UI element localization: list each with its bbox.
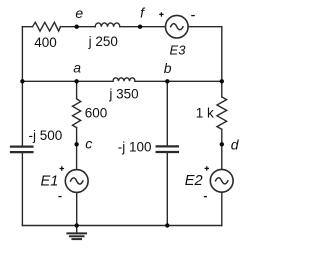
resistor 400 xyxy=(33,22,61,31)
wire capacitor -j100 to bottom wire xyxy=(166,153,168,225)
capacitor -j100 top plate xyxy=(157,145,178,147)
wire right rail upper (corner to resistor 1k) xyxy=(221,27,223,97)
E3 sine symbol xyxy=(171,24,183,30)
AC source E2 circle xyxy=(210,169,233,192)
svg-text:1 k: 1 k xyxy=(196,105,214,120)
svg-text:b: b xyxy=(164,60,172,76)
node e junction dot xyxy=(75,25,79,29)
E1 plus sign xyxy=(60,166,64,170)
resistor 1k xyxy=(217,97,227,129)
ground bar 3 xyxy=(72,238,81,240)
svg-text:-j 500: -j 500 xyxy=(29,128,63,143)
ground bar 1 xyxy=(67,232,86,234)
wire E2 to bottom-right corner xyxy=(221,192,223,225)
wire resistor 1k to source E2 (through node d) xyxy=(221,129,223,169)
svg-text:j 250: j 250 xyxy=(88,34,118,49)
resistor 600 xyxy=(73,99,81,128)
ground stub xyxy=(76,226,78,234)
wire node b to capacitor -j100 xyxy=(166,81,168,145)
junction dot left rail row2 xyxy=(20,79,24,83)
E3 minus sign xyxy=(191,15,195,17)
E1 minus sign xyxy=(58,196,61,198)
svg-text:a: a xyxy=(73,59,81,75)
junction dot bottom E1 branch xyxy=(75,223,79,227)
E2 sine symbol xyxy=(216,178,228,184)
svg-text:E3: E3 xyxy=(170,43,187,58)
E3 plus sign xyxy=(159,12,163,16)
wire top-left corner to R 400 xyxy=(22,26,32,28)
junction dot bottom -j100 branch xyxy=(165,223,169,227)
wire row2 left (left rail to inductor j350, through node a) xyxy=(22,80,113,82)
svg-text:E2: E2 xyxy=(185,173,203,189)
svg-text:e: e xyxy=(75,5,83,21)
node f junction dot xyxy=(138,25,142,29)
wire E3 to top-right corner xyxy=(188,26,222,28)
node c junction dot xyxy=(74,142,78,146)
ground bar 2 xyxy=(70,235,84,237)
AC source E1 circle xyxy=(65,170,88,193)
capacitor -j500 bottom plate xyxy=(11,151,32,153)
svg-text:400: 400 xyxy=(34,35,57,50)
E2 minus sign xyxy=(204,196,207,198)
inductor j350 xyxy=(113,78,135,82)
svg-text:-j 100: -j 100 xyxy=(118,140,152,155)
svg-text:E1: E1 xyxy=(41,174,59,190)
node b junction dot xyxy=(165,79,169,83)
svg-text:f: f xyxy=(140,5,146,21)
svg-text:c: c xyxy=(85,136,92,152)
svg-text:d: d xyxy=(231,136,240,152)
E1 sine symbol xyxy=(71,178,83,184)
wire row2 right (j350 to right rail, through node b) xyxy=(135,80,222,82)
node d junction dot xyxy=(220,142,224,146)
E2 plus sign xyxy=(205,166,209,170)
wire j250 to source E3 (through node f) xyxy=(120,26,166,28)
junction dot right rail row2 xyxy=(220,79,224,83)
svg-text:600: 600 xyxy=(85,106,108,121)
wire R400 to inductor j250 (through node e) xyxy=(61,26,96,28)
svg-text:j 350: j 350 xyxy=(108,86,138,101)
wire resistor 600 to source E1 (through node c) xyxy=(76,128,78,170)
capacitor -j100 bottom plate xyxy=(157,151,178,153)
capacitor -j500 top plate xyxy=(11,145,32,147)
wire E1 to bottom wire xyxy=(76,193,78,226)
AC source E3 circle xyxy=(166,15,189,38)
wire node a to resistor 600 xyxy=(76,81,78,98)
node a junction dot xyxy=(74,79,78,83)
wire bottom rail xyxy=(22,225,221,227)
wire left rail lower (capacitor to bottom-left corner) xyxy=(21,153,23,225)
inductor j250 xyxy=(95,23,120,27)
wire left rail upper (corner to capacitor -j500) xyxy=(21,27,23,146)
